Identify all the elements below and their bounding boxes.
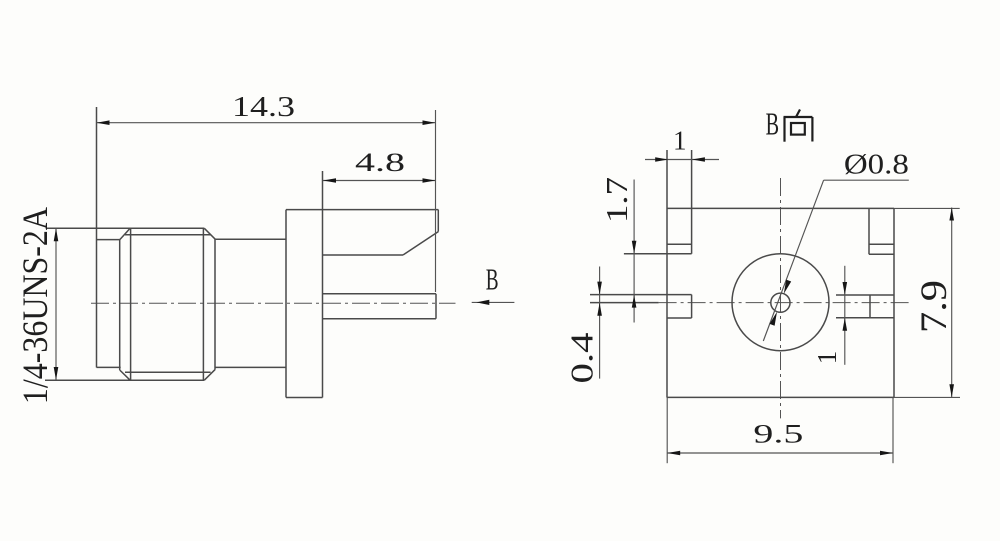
svg-text:7.9: 7.9 [914,280,955,333]
svg-text:Ø0.8: Ø0.8 [844,149,909,181]
svg-text:1.7: 1.7 [599,177,634,223]
svg-text:1: 1 [812,351,842,365]
svg-text:4.8: 4.8 [355,148,405,177]
svg-text:1: 1 [673,125,687,155]
svg-text:0.4: 0.4 [563,333,599,384]
svg-text:B: B [766,106,779,142]
svg-text:1/4-36UNS-2A: 1/4-36UNS-2A [15,207,55,404]
svg-text:B: B [486,262,499,297]
svg-text:9.5: 9.5 [753,418,803,448]
svg-text:14.3: 14.3 [232,91,295,123]
